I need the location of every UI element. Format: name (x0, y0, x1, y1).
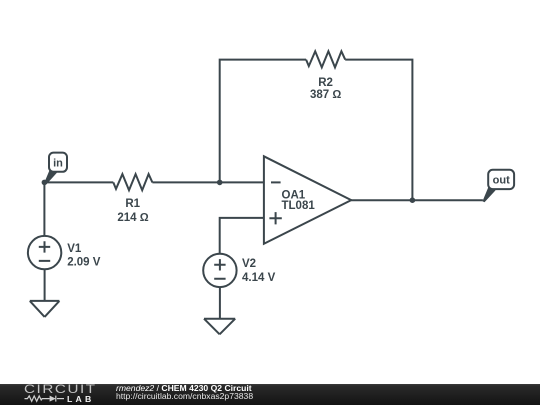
svg-text:TL081: TL081 (282, 200, 316, 212)
svg-text:V1: V1 (67, 243, 82, 255)
svg-text:2.09 V: 2.09 V (67, 256, 101, 268)
svg-text:4.14 V: 4.14 V (242, 272, 276, 284)
svg-text:387 Ω: 387 Ω (310, 89, 341, 101)
svg-text:214 Ω: 214 Ω (117, 212, 148, 224)
svg-text:V2: V2 (242, 258, 256, 270)
svg-text:in: in (53, 157, 63, 169)
svg-text:R2: R2 (318, 77, 333, 89)
svg-text:R1: R1 (125, 198, 140, 210)
svg-text:out: out (493, 175, 510, 187)
